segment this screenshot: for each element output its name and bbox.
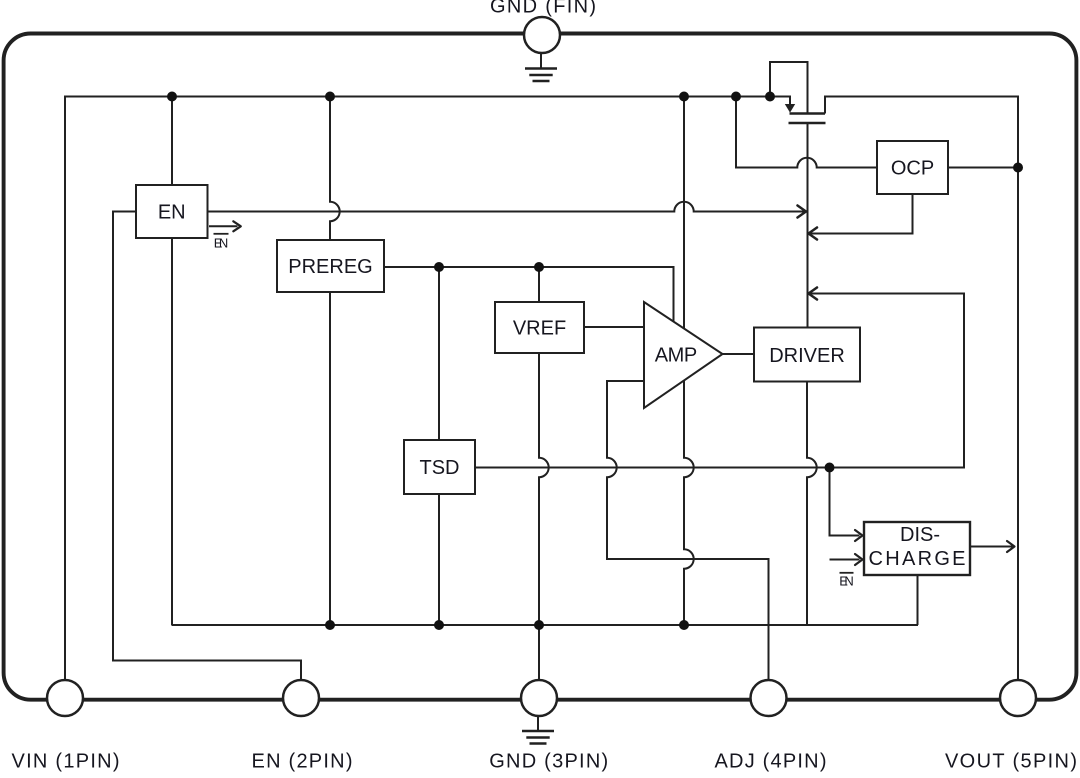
svg-text:AMP: AMP (655, 345, 698, 367)
svg-text:EN: EN (839, 574, 854, 589)
svg-text:GND (FIN): GND (FIN) (490, 0, 596, 18)
svg-text:DRIVER: DRIVER (769, 345, 845, 367)
svg-text:VOUT (5PIN): VOUT (5PIN) (945, 750, 1077, 772)
svg-text:EN: EN (214, 236, 229, 251)
svg-text:DIS-: DIS- (900, 524, 940, 546)
svg-text:EN (2PIN): EN (2PIN) (252, 750, 353, 772)
svg-text:PREREG: PREREG (288, 256, 372, 278)
svg-text:GND (3PIN): GND (3PIN) (489, 750, 608, 772)
svg-text:TSD: TSD (420, 457, 460, 479)
svg-text:OCP: OCP (891, 158, 934, 180)
svg-text:VIN (1PIN): VIN (1PIN) (12, 750, 120, 772)
svg-text:ADJ (4PIN): ADJ (4PIN) (715, 750, 827, 772)
svg-text:VREF: VREF (513, 318, 566, 340)
svg-text:EN: EN (158, 202, 186, 224)
